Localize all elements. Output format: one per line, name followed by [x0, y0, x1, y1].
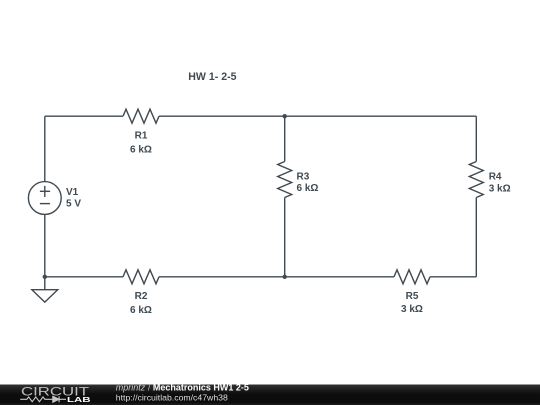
- label R2 value 6 kOhm: [130, 291, 152, 316]
- wire bottom-right (R5 to right rail): [430, 276, 476, 278]
- svg-text:6 kΩ: 6 kΩ: [130, 145, 152, 156]
- wire left lower (V1 minus to ground node): [44, 214, 46, 276]
- wire left upper (corner to V1 plus): [44, 116, 46, 181]
- svg-text:mprintz / Mechatronics HW1 2-5: mprintz / Mechatronics HW1 2-5: [116, 383, 249, 393]
- wire top-right (node A to R4): [285, 115, 477, 117]
- svg-text:HW 1- 2-5: HW 1- 2-5: [188, 71, 236, 83]
- wire middle upper (node A to R3): [284, 116, 286, 161]
- svg-text:R1: R1: [135, 131, 148, 142]
- logo resistor-diode line: [20, 396, 66, 402]
- svg-text:V1: V1: [66, 187, 79, 198]
- wire top-middle (R1 to node A): [159, 115, 285, 117]
- svg-text:R4: R4: [489, 172, 502, 183]
- wire right upper (corner to R4): [475, 116, 477, 161]
- label V1 value 5 V: [66, 187, 81, 210]
- svg-text:3 kΩ: 3 kΩ: [401, 304, 423, 315]
- resistor R1: [123, 109, 159, 123]
- svg-text:R3: R3: [297, 172, 310, 183]
- label R4 value 3 kOhm: [489, 172, 511, 195]
- svg-text:R2: R2: [135, 291, 148, 302]
- resistor R4: [469, 162, 483, 198]
- svg-text:LAB: LAB: [67, 395, 91, 404]
- resistor R2: [123, 270, 159, 284]
- svg-text:3 kΩ: 3 kΩ: [489, 184, 511, 195]
- wire bottom-middle (R2 to node B): [159, 276, 285, 278]
- voltage source V1: [28, 182, 61, 215]
- resistor R3: [278, 162, 292, 198]
- label R3 value 6 kOhm: [297, 172, 319, 195]
- node B junction dot: [283, 275, 287, 279]
- node A junction dot: [283, 114, 287, 118]
- label R5 value 3 kOhm: [401, 291, 423, 315]
- svg-text:http://circuitlab.com/c47wh38: http://circuitlab.com/c47wh38: [116, 392, 228, 402]
- svg-text:R5: R5: [406, 291, 419, 302]
- svg-text:6 kΩ: 6 kΩ: [297, 183, 319, 194]
- resistor R5: [394, 270, 430, 284]
- wire right lower (R4 to bottom rail): [475, 198, 477, 277]
- wire middle lower (R3 to node B): [284, 198, 286, 277]
- wire top-left (V1 to R1): [45, 115, 123, 117]
- node ground junction dot: [43, 275, 47, 279]
- wire bottom (node B to R5): [285, 276, 394, 278]
- svg-text:6 kΩ: 6 kΩ: [130, 305, 152, 316]
- svg-text:5 V: 5 V: [66, 199, 81, 210]
- label R1 value 6 kOhm: [130, 131, 152, 156]
- ground: [44, 277, 46, 290]
- wire bottom-left (ground node to R2): [45, 276, 123, 278]
